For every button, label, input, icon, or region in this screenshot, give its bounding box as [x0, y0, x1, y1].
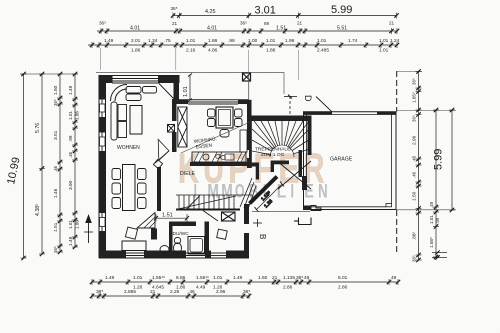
- kitchen leader line diagonal: [181, 122, 250, 153]
- svg-text:.46: .46: [188, 289, 195, 295]
- extension line kitchen corner to dims: [248, 50, 250, 72]
- dining table living: [123, 165, 136, 211]
- svg-text:3.01: 3.01: [255, 5, 276, 17]
- svg-text:2.885: 2.885: [124, 289, 136, 295]
- svg-text:49: 49: [391, 275, 397, 281]
- stair right wall lower jog: [299, 150, 303, 177]
- svg-text:1.00: 1.00: [248, 38, 258, 44]
- shaft X box hall: [222, 212, 236, 221]
- svg-text:1.86: 1.86: [75, 111, 80, 120]
- bath top wall: [169, 222, 196, 227]
- svg-text:1.01: 1.01: [133, 275, 143, 281]
- WC tank: [174, 237, 180, 243]
- svg-text:36⁵: 36⁵: [96, 289, 103, 295]
- bottom wall window 3: [211, 253, 226, 256]
- garage bottom-right step: [386, 204, 392, 207]
- sofa top cushions: [126, 87, 141, 94]
- kitchen right / stair left wall lower: [247, 158, 252, 168]
- svg-text:N: N: [318, 182, 328, 203]
- svg-text:4.25: 4.25: [205, 9, 216, 15]
- hall wall diamond pier: [153, 159, 162, 168]
- svg-text:1.99: 1.99: [285, 38, 295, 44]
- WC bowl: [174, 243, 182, 253]
- svg-text:5.76: 5.76: [35, 123, 41, 133]
- cross diagonals entry porch: [277, 161, 311, 189]
- svg-text:1.55¹⁹: 1.55¹⁹: [152, 275, 165, 281]
- svg-text:21: 21: [150, 289, 156, 295]
- svg-text:4.49: 4.49: [196, 285, 206, 291]
- svg-text:1.86: 1.86: [266, 48, 276, 54]
- kitchen counter band: [192, 152, 246, 162]
- pier between stair and garage: [302, 176, 307, 190]
- stair room left wall upper: [249, 121, 252, 168]
- chamfer diagonal living: [159, 83, 174, 99]
- chairs right: [138, 169, 147, 180]
- hall door swing 1: [185, 196, 200, 211]
- watermark KUPFER: [178, 145, 325, 192]
- sideboard bottom living: [122, 241, 146, 251]
- svg-text:1.86: 1.86: [131, 48, 141, 54]
- svg-text:1.49: 1.49: [105, 275, 115, 281]
- svg-text:.88⁵: .88⁵: [412, 232, 417, 240]
- svg-text:D: D: [303, 95, 313, 102]
- svg-text:1.01: 1.01: [266, 38, 276, 44]
- dim col right 1: [418, 71, 420, 260]
- svg-text:36⁵: 36⁵: [412, 255, 417, 262]
- sofa left band: [111, 102, 117, 140]
- extension line living corner to dims: [99, 48, 101, 70]
- stair room bottom wall piece: [271, 161, 289, 165]
- dim row bottom 2: [92, 295, 250, 297]
- svg-text:1.01: 1.01: [317, 38, 327, 44]
- diagonal roofline at garage: [316, 97, 332, 112]
- top wall window: [112, 79, 158, 84]
- dimension lines: [5, 4, 455, 299]
- garage bottom-left wall end: [303, 206, 311, 211]
- dim row B top: [97, 30, 397, 32]
- svg-text:4.38⁵: 4.38⁵: [35, 204, 41, 216]
- svg-text:1.49: 1.49: [104, 38, 114, 44]
- garage left boundary: [303, 115, 305, 207]
- dashed line D dim: [289, 96, 291, 114]
- svg-text:2.96: 2.96: [412, 135, 418, 145]
- svg-text:B: B: [258, 234, 267, 239]
- stair room top wall: [249, 116, 312, 122]
- svg-text:2.01: 2.01: [131, 38, 141, 44]
- left wall window 1: [100, 100, 106, 118]
- svg-text:.49: .49: [429, 201, 434, 208]
- svg-text:1.01: 1.01: [429, 215, 434, 224]
- svg-text:.46: .46: [53, 165, 58, 172]
- svg-text:1.01: 1.01: [183, 86, 189, 97]
- basement stair turn treads: [240, 178, 256, 209]
- svg-text:.99: .99: [68, 135, 73, 142]
- svg-text:1.24: 1.24: [390, 38, 400, 44]
- roof overhang line top: [96, 72, 250, 74]
- svg-text:1.51: 1.51: [53, 222, 59, 232]
- extension line kitchen left to dims: [175, 48, 177, 70]
- svg-text:8.86: 8.86: [176, 275, 186, 281]
- svg-text:1.01: 1.01: [213, 275, 223, 281]
- svg-text:.99: .99: [228, 38, 235, 44]
- svg-text:1.46: 1.46: [53, 188, 59, 198]
- svg-text:1.01: 1.01: [68, 220, 73, 229]
- svg-text:1.01: 1.01: [68, 111, 73, 120]
- extension line top right corner: [397, 71, 422, 73]
- diagonal wall SE: [250, 177, 278, 204]
- svg-text:5.99: 5.99: [433, 149, 445, 170]
- north arrow left: [88, 218, 90, 243]
- basement stair band: [176, 195, 252, 210]
- garage bottom wall: [303, 209, 396, 211]
- left wall window 2: [100, 133, 106, 152]
- stair room right wall: [308, 121, 312, 155]
- svg-text:36⁵: 36⁵: [240, 21, 247, 26]
- kitchen dining table: [216, 107, 233, 128]
- svg-text:2.86: 2.86: [338, 285, 348, 291]
- kitchen tall cabinet X: [178, 107, 187, 147]
- svg-text:1.01: 1.01: [379, 48, 389, 54]
- tilted square living: [125, 227, 137, 239]
- svg-text:1.51: 1.51: [276, 26, 286, 32]
- dashed property line right upper: [396, 71, 398, 112]
- right lower wall of house: [244, 204, 249, 224]
- garage top wall: [303, 111, 396, 113]
- entry step symbol: [311, 206, 321, 211]
- svg-text:1.86: 1.86: [208, 38, 218, 44]
- svg-text:1.65⁵: 1.65⁵: [412, 92, 417, 103]
- garage right wall: [395, 112, 397, 210]
- svg-text:36⁵: 36⁵: [243, 289, 250, 295]
- kitchen chair bottom: [220, 130, 229, 138]
- svg-text:4.01: 4.01: [207, 26, 217, 32]
- dim col left 3: [59, 74, 61, 252]
- chimney box on roof line: [243, 73, 251, 81]
- svg-text:.45: .45: [412, 155, 417, 162]
- svg-text:1.49: 1.49: [68, 236, 74, 246]
- svg-text:36⁵: 36⁵: [171, 6, 178, 11]
- svg-text:36⁵: 36⁵: [412, 78, 417, 85]
- extension line garage top right: [396, 110, 456, 112]
- stair fan upper: [252, 121, 310, 157]
- extension line garage bottom right: [396, 209, 456, 211]
- bath left wall: [169, 222, 173, 252]
- svg-text:.75: .75: [164, 38, 171, 44]
- svg-text:1.86: 1.86: [75, 220, 80, 229]
- left wall: [98, 76, 100, 259]
- living sofa corner arc: [111, 85, 128, 102]
- svg-text:.46: .46: [412, 171, 417, 178]
- svg-text:4.86: 4.86: [208, 48, 218, 54]
- diagonal dim line entry: [255, 182, 285, 213]
- svg-text:5.99: 5.99: [331, 4, 352, 16]
- upper floor outline line right of kitchen: [250, 71, 284, 73]
- top wall solid right segment: [158, 76, 180, 84]
- bottom wall: [99, 257, 249, 259]
- svg-text:WOHNEN: WOHNEN: [117, 145, 140, 151]
- hall-living lower wall: [157, 167, 161, 211]
- bottom wall window 1: [126, 253, 144, 256]
- svg-text:2.96: 2.96: [216, 289, 226, 295]
- dim col left 1: [23, 74, 25, 258]
- svg-text:1.50: 1.50: [412, 191, 418, 201]
- corner triangle shelf: [137, 213, 155, 229]
- svg-text:36⁵: 36⁵: [99, 21, 106, 26]
- dim row C top: [88, 44, 397, 46]
- cross tick entry: [253, 222, 262, 224]
- svg-text:49: 49: [304, 275, 310, 281]
- svg-text:ZUM 1.OG: ZUM 1.OG: [261, 152, 284, 158]
- svg-text:1.01: 1.01: [186, 38, 196, 44]
- svg-text:1.50: 1.50: [53, 85, 59, 95]
- shower: [188, 237, 205, 255]
- svg-text:.46: .46: [68, 151, 73, 158]
- stair wall vertical stub left: [256, 166, 259, 180]
- svg-text:36⁵: 36⁵: [53, 99, 58, 106]
- svg-text:21: 21: [389, 21, 395, 26]
- svg-text:3.51: 3.51: [53, 130, 59, 140]
- entry U symbol: [299, 218, 312, 225]
- svg-text:TREPPENHAUS: TREPPENHAUS: [255, 147, 291, 153]
- stair wall vertical stub right: [271, 161, 274, 173]
- svg-text:21: 21: [297, 21, 303, 26]
- kitchen right / stair left wall upper: [247, 104, 252, 150]
- kitchen left wall lower: [172, 99, 177, 121]
- door living-hall swing triangle: [158, 139, 169, 160]
- dim row A top: [173, 15, 397, 17]
- interior dim 1.01 kitchen left rotated: [188, 74, 192, 102]
- utility tilted square: [217, 229, 228, 239]
- outside terrace line: [252, 211, 310, 213]
- kitchen chairs left: [208, 109, 216, 117]
- kitchen-hall wall: [190, 162, 251, 166]
- svg-text:1.01: 1.01: [379, 38, 389, 44]
- watermark IMMOBILIEN: [194, 182, 328, 203]
- svg-text:4.01: 4.01: [130, 26, 140, 32]
- sofa seats: [118, 105, 127, 121]
- interior dim 1.51 hall: [154, 214, 189, 222]
- svg-text:1.34: 1.34: [148, 38, 158, 44]
- svg-text:1.51: 1.51: [162, 213, 173, 219]
- svg-text:36⁵: 36⁵: [53, 246, 58, 253]
- svg-text:69: 69: [264, 21, 270, 26]
- svg-text:1.74: 1.74: [348, 38, 358, 44]
- svg-text:1.58⁵: 1.58⁵: [429, 237, 434, 248]
- svg-text:36⁵: 36⁵: [296, 275, 303, 281]
- top wall solid left segment: [99, 76, 113, 84]
- sink: [160, 246, 169, 254]
- svg-text:5.51: 5.51: [337, 26, 347, 32]
- bath niche pier: [151, 229, 157, 240]
- kitchen chairs right: [235, 109, 243, 117]
- dim col right 3: [451, 110, 453, 210]
- kitchen right counter column: [240, 130, 247, 152]
- svg-text:36⁵: 36⁵: [412, 115, 417, 122]
- dashed property line right lower: [396, 210, 398, 254]
- svg-text:2.485: 2.485: [317, 48, 329, 54]
- svg-text:5.01: 5.01: [338, 275, 348, 281]
- dim col left 4: [74, 74, 76, 247]
- hall door swing 2: [203, 211, 218, 222]
- svg-text:.99: .99: [435, 217, 440, 224]
- dim row bottom 1: [92, 281, 398, 283]
- extension line stair corner to dims: [297, 50, 299, 80]
- bath right wall: [205, 222, 210, 252]
- svg-text:3.90: 3.90: [68, 180, 74, 190]
- svg-text:1.49: 1.49: [68, 85, 74, 95]
- svg-text:2.26: 2.26: [170, 289, 180, 295]
- svg-text:1.49: 1.49: [233, 275, 243, 281]
- stair hall wall piece: [248, 163, 259, 167]
- svg-text:DIELE: DIELE: [180, 171, 196, 177]
- coffee table: [130, 106, 142, 135]
- bottom wall window 2: [186, 253, 205, 256]
- top wall outer line: [99, 75, 180, 77]
- dim col left 2: [41, 74, 43, 254]
- svg-text:2.86: 2.86: [283, 285, 293, 291]
- room labels: [117, 135, 353, 237]
- svg-text:1.135: 1.135: [283, 275, 295, 281]
- svg-text:DU/WC: DU/WC: [173, 231, 190, 237]
- svg-text:21: 21: [272, 275, 278, 281]
- kitchen pier X box: [168, 125, 175, 133]
- living-kitchen upper wall piece: [158, 78, 180, 83]
- svg-text:2.16: 2.16: [186, 48, 196, 54]
- chairs left: [112, 169, 121, 180]
- kitchen left wall below pier: [172, 132, 177, 152]
- kitchen left upper wall: [174, 83, 180, 100]
- thin vertical from roofline to kitchen: [248, 73, 250, 100]
- kitchen top wall: [176, 99, 249, 101]
- svg-text:21: 21: [172, 21, 178, 26]
- svg-text:1.50: 1.50: [258, 275, 268, 281]
- svg-text:1.55¹⁹: 1.55¹⁹: [196, 275, 209, 281]
- svg-text:GARAGE: GARAGE: [330, 157, 353, 163]
- left wall window 3: [100, 213, 106, 231]
- dim bottom right end marks: [432, 252, 447, 254]
- svg-text:I: I: [290, 182, 294, 203]
- dim col right 2: [435, 110, 437, 257]
